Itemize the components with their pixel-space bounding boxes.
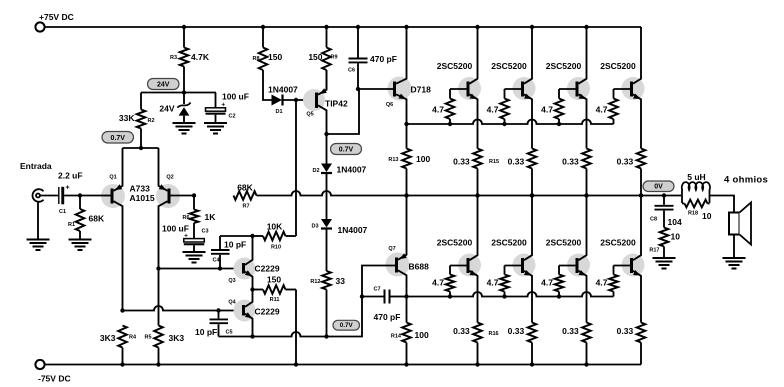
svg-text:Entrada: Entrada <box>20 161 52 171</box>
svg-text:R18: R18 <box>688 211 698 217</box>
svg-text:Q2: Q2 <box>166 175 173 181</box>
node base bus junction #2 <box>502 122 506 126</box>
svg-text:2SC5200: 2SC5200 <box>437 238 473 248</box>
svg-text:R4: R4 <box>129 335 137 341</box>
resistor R3 4.7K <box>183 27 185 48</box>
resistor R6 1K <box>193 196 195 210</box>
node emitter junction <box>139 146 143 150</box>
resistor emitter 0.33 bottom #4 <box>637 323 646 343</box>
svg-text:2SC5200: 2SC5200 <box>600 61 636 71</box>
node C8 junction <box>662 193 666 197</box>
transistor B4 2SC5200 bottom <box>622 254 645 277</box>
svg-text:24V: 24V <box>159 104 174 114</box>
svg-text:24V: 24V <box>157 82 170 89</box>
svg-text:2SC5200: 2SC5200 <box>491 238 527 248</box>
svg-text:4.7: 4.7 <box>432 105 444 115</box>
wire +75V top rail <box>45 26 641 28</box>
resistor R10 10K <box>253 235 264 237</box>
svg-text:4.7K: 4.7K <box>191 52 210 62</box>
ground R1 <box>69 240 92 251</box>
node collector bus junction #3 <box>584 193 588 197</box>
svg-text:R1: R1 <box>68 222 75 228</box>
svg-text:R7: R7 <box>242 204 249 210</box>
svg-text:2SC5200: 2SC5200 <box>546 238 582 248</box>
wire Q4 base bus <box>123 306 243 311</box>
transistor B1 2SC5200 bottom <box>458 254 481 277</box>
svg-text:150: 150 <box>268 52 282 62</box>
resistor R14 100 <box>406 297 408 323</box>
node R11 junction <box>250 287 254 291</box>
svg-text:R17: R17 <box>649 248 659 254</box>
node Q2 collector junction <box>156 266 160 270</box>
transistor Q6 D718 <box>388 77 412 101</box>
diode D3 1N4007 <box>321 219 332 228</box>
node output bus junction #2 <box>530 193 534 197</box>
transistor B2 2SC5200 bottom <box>513 254 536 277</box>
wire jack ground <box>37 202 39 239</box>
node C7 left junction <box>360 294 364 298</box>
transistor T2 2SC5200 top <box>513 77 536 100</box>
svg-text:470 pF: 470 pF <box>370 54 397 64</box>
svg-text:0.33: 0.33 <box>562 157 579 167</box>
svg-text:C6: C6 <box>348 68 355 74</box>
svg-text:C8: C8 <box>650 217 657 223</box>
svg-text:100 uF: 100 uF <box>162 224 189 234</box>
svg-text:0.33: 0.33 <box>562 326 579 336</box>
svg-text:1N4007: 1N4007 <box>337 165 367 175</box>
capacitor C4 10 pF <box>220 235 253 237</box>
input jack J1 <box>33 189 44 202</box>
transistor T3 2SC5200 top <box>567 77 590 100</box>
-75V terminal <box>35 360 44 369</box>
svg-text:33: 33 <box>336 276 346 286</box>
svg-text:R11: R11 <box>270 297 280 303</box>
inductor L1 5 uH <box>681 190 683 204</box>
svg-text:10: 10 <box>702 211 712 221</box>
wire Q4 emitter bus <box>219 297 363 337</box>
svg-text:R3: R3 <box>170 55 177 61</box>
resistor emitter 0.33 bottom #2 <box>528 323 537 343</box>
transistor T1 2SC5200 top <box>458 77 481 100</box>
svg-text:68K: 68K <box>89 214 105 224</box>
svg-text:4 ohmios: 4 ohmios <box>724 175 768 186</box>
svg-text:Q4: Q4 <box>228 300 236 306</box>
node Q7 emitter bus junction <box>404 193 408 197</box>
transistor Q2 A733/A1015 <box>156 184 180 208</box>
svg-text:R12: R12 <box>310 279 320 285</box>
svg-text:104: 104 <box>668 217 682 227</box>
wire R10 to feedback riser <box>295 235 297 237</box>
node 24V junction <box>182 90 186 94</box>
node 0V label <box>643 181 674 192</box>
node R14 rail junction <box>404 362 408 366</box>
resistor base 4.7 bottom #3 <box>558 266 560 275</box>
node lower base bus junction #2 <box>502 294 506 298</box>
diode D2 1N4007 <box>326 134 328 164</box>
svg-text:4.7: 4.7 <box>541 278 553 288</box>
svg-text:Q1: Q1 <box>109 175 116 181</box>
zener diode 24V <box>183 93 185 105</box>
capacitor C5 10 pF <box>218 311 220 319</box>
node R12 bottom junction <box>324 334 328 338</box>
svg-text:-75V DC: -75V DC <box>38 374 71 384</box>
resistor R12 33 <box>326 230 328 272</box>
resistor R13 100 <box>406 124 408 149</box>
capacitor C7 470 pF <box>362 296 384 298</box>
resistor emitter 0.33 top #3 <box>582 149 591 169</box>
svg-text:0.33: 0.33 <box>617 326 634 336</box>
resistor R11 150 <box>253 289 264 291</box>
ground zener <box>173 123 196 134</box>
node R5 rail junction <box>156 362 160 366</box>
node input junction <box>78 193 82 197</box>
resistor base 4.7 top #2 <box>504 89 506 99</box>
ground input jack <box>27 240 50 251</box>
transistor Q1 A733/A1015 <box>101 184 125 208</box>
resistor base 4.7 bottom #2 <box>504 266 506 275</box>
transistor T4 2SC5200 top <box>622 77 645 100</box>
capacitor C3 100 uF <box>184 239 205 242</box>
transistor B3 2SC5200 bottom <box>567 254 590 277</box>
svg-text:1K: 1K <box>205 212 217 222</box>
node collector bus junction #4 <box>639 193 643 197</box>
resistor base 4.7 bottom #4 <box>613 266 615 275</box>
svg-text:2SC5200: 2SC5200 <box>600 238 636 248</box>
resistor base 4.7 top #3 <box>558 89 560 99</box>
wire -75V bottom rail <box>45 364 641 366</box>
node output bus junction #1 <box>475 193 479 197</box>
node Q6 base junction <box>356 87 360 91</box>
svg-text:A1015: A1015 <box>130 193 155 203</box>
ground C2 <box>204 123 227 134</box>
svg-text:2SC5200: 2SC5200 <box>437 61 473 71</box>
node Q1 collector junction <box>120 308 124 312</box>
node output bus junction #3 <box>584 193 588 197</box>
resistor R4 3K3 <box>118 326 127 348</box>
wire feedback riser <box>295 100 297 236</box>
ground speaker <box>723 258 746 269</box>
wire to speaker <box>710 196 735 213</box>
svg-text:0.7V: 0.7V <box>340 322 354 329</box>
node collector bus junction #1 <box>475 193 479 197</box>
svg-text:4.7: 4.7 <box>596 278 608 288</box>
svg-text:100: 100 <box>415 330 429 340</box>
node rail junction low #2 <box>530 362 534 366</box>
svg-text:0.7V: 0.7V <box>339 147 354 154</box>
svg-text:0.33: 0.33 <box>508 326 525 336</box>
node C5 junction <box>216 308 220 312</box>
svg-text:4.7: 4.7 <box>541 105 553 115</box>
resistor R18 10 <box>682 203 685 205</box>
node C4 junction <box>218 266 222 270</box>
svg-text:Q6: Q6 <box>386 102 393 108</box>
svg-text:R2: R2 <box>148 118 155 124</box>
node rail T1 <box>475 25 479 29</box>
node rail R8 <box>261 25 265 29</box>
svg-text:470 pF: 470 pF <box>374 312 401 322</box>
resistor R1 68K <box>79 196 81 210</box>
node 0.7V label <box>102 132 134 144</box>
svg-text:150: 150 <box>267 275 281 285</box>
svg-text:R5: R5 <box>144 335 151 341</box>
svg-text:A733: A733 <box>130 184 151 194</box>
node base bus junction #1 <box>448 122 452 126</box>
svg-text:D2: D2 <box>312 168 319 174</box>
svg-text:3K3: 3K3 <box>169 333 185 343</box>
svg-text:10 pF: 10 pF <box>195 327 217 337</box>
ground C3 <box>183 252 206 263</box>
svg-text:Q3: Q3 <box>228 278 235 284</box>
ground R17 <box>653 258 676 269</box>
wire emitter node <box>123 147 159 149</box>
svg-text:D718: D718 <box>411 85 432 95</box>
transistor Q7 B688 <box>386 253 410 277</box>
node rail C6 <box>356 25 360 29</box>
svg-text:2SC5200: 2SC5200 <box>546 61 582 71</box>
svg-text:C5: C5 <box>226 330 233 336</box>
resistor R7 68K <box>234 191 257 200</box>
svg-text:R10: R10 <box>271 245 281 251</box>
svg-text:68K: 68K <box>237 183 253 193</box>
svg-text:2SC5200: 2SC5200 <box>491 61 527 71</box>
svg-text:+75V DC: +75V DC <box>39 12 74 22</box>
node rail T2 <box>530 25 534 29</box>
capacitor C2 100 uF <box>215 93 217 108</box>
wire D2 to D3 <box>326 174 328 219</box>
node R10 junction <box>250 234 254 238</box>
node rail junction low #1 <box>475 362 479 366</box>
svg-text:C2229: C2229 <box>255 307 280 317</box>
svg-text:+: + <box>221 102 225 109</box>
svg-text:C2: C2 <box>229 114 236 120</box>
node output bus junction #4 <box>639 193 643 197</box>
svg-text:C7: C7 <box>374 287 381 293</box>
node R4 rail junction <box>120 362 124 366</box>
svg-text:0.33: 0.33 <box>453 157 470 167</box>
speaker LS1 <box>729 213 740 235</box>
wire lower base bus <box>407 292 614 296</box>
wire speaker ground <box>733 235 735 259</box>
svg-text:5 uH: 5 uH <box>687 172 705 182</box>
svg-text:100: 100 <box>416 154 430 164</box>
node Q6 emitter junction <box>404 122 408 126</box>
svg-text:0.33: 0.33 <box>508 157 525 167</box>
node R13 bus junction <box>404 193 408 197</box>
wire Q3 base bus <box>159 268 243 270</box>
svg-text:0.7V: 0.7V <box>111 135 126 142</box>
wire output bus <box>257 191 682 195</box>
svg-text:1N4007: 1N4007 <box>268 85 298 95</box>
resistor R2 33K <box>140 93 142 110</box>
wire R11 riser to -rail <box>295 290 297 365</box>
svg-text:Q7: Q7 <box>388 246 395 252</box>
node rail Q6 <box>404 25 408 29</box>
svg-text:4.7: 4.7 <box>487 278 499 288</box>
svg-text:4.7: 4.7 <box>487 105 499 115</box>
diode D1 1N4007 <box>272 95 283 106</box>
node Q4 emitter junction <box>250 334 254 338</box>
capacitor C8 104 <box>663 196 665 205</box>
+75V terminal <box>35 22 44 31</box>
node R6 junction <box>192 193 196 197</box>
resistor emitter 0.33 top #1 <box>473 149 482 169</box>
transistor Q5 TIP42 <box>303 89 325 111</box>
node lower base bus junction #3 <box>557 294 561 298</box>
resistor emitter 0.33 top #2 <box>528 149 537 169</box>
svg-text:4.7: 4.7 <box>596 105 608 115</box>
svg-text:150: 150 <box>308 52 322 62</box>
node rail R3 <box>182 25 186 29</box>
svg-text:C3: C3 <box>202 229 209 235</box>
svg-text:R13: R13 <box>388 157 398 163</box>
svg-text:10K: 10K <box>267 222 283 232</box>
svg-text:C1: C1 <box>59 209 66 215</box>
svg-text:10: 10 <box>671 232 681 242</box>
svg-text:B688: B688 <box>409 262 430 272</box>
capacitor C1 2.2 uF <box>58 187 60 204</box>
node base bus junction #3 <box>557 122 561 126</box>
svg-text:3K3: 3K3 <box>100 333 116 343</box>
node rail T3 <box>584 25 588 29</box>
transistor Q3 C2229 <box>234 258 256 280</box>
node Q5 collector junction <box>324 132 328 136</box>
svg-text:2.2 uF: 2.2 uF <box>58 171 83 181</box>
node lower base bus junction #1 <box>448 294 452 298</box>
svg-text:R6: R6 <box>182 215 189 221</box>
svg-text:C4: C4 <box>213 258 221 264</box>
resistor emitter 0.33 top #4 <box>637 149 646 169</box>
node Q7 collector junction <box>404 294 408 298</box>
svg-text:D3: D3 <box>311 224 318 230</box>
svg-text:1N4007: 1N4007 <box>338 225 368 235</box>
svg-text:C2229: C2229 <box>255 264 280 274</box>
svg-text:Q5: Q5 <box>306 112 313 118</box>
node rail R9 <box>324 25 328 29</box>
svg-text:R8: R8 <box>252 56 259 62</box>
wire 24V node <box>141 92 216 94</box>
transistor Q4 C2229 <box>234 300 256 322</box>
svg-text:100 uF: 100 uF <box>222 91 249 101</box>
resistor R5 3K3 <box>154 326 163 348</box>
svg-text:TIP42: TIP42 <box>325 99 348 109</box>
resistor base 4.7 top #1 <box>449 89 451 99</box>
node R11 rail junction <box>294 362 298 366</box>
wire top base bus <box>407 120 614 125</box>
node 24V label <box>148 79 180 90</box>
resistor base 4.7 top #4 <box>613 89 615 99</box>
svg-text:0.33: 0.33 <box>453 326 470 336</box>
svg-text:R15: R15 <box>489 159 499 165</box>
wire Q5 collector to Q6 base <box>327 89 360 134</box>
resistor R9 150 <box>326 27 328 48</box>
svg-text:+: + <box>65 185 69 192</box>
resistor emitter 0.33 bottom #1 <box>473 323 482 343</box>
svg-text:10 pF: 10 pF <box>224 240 246 250</box>
node 0.7V label mid <box>331 144 362 155</box>
node collector bus junction #2 <box>530 193 534 197</box>
svg-text:4.7: 4.7 <box>432 278 444 288</box>
svg-text:33K: 33K <box>119 113 135 123</box>
svg-text:R9: R9 <box>331 55 338 61</box>
svg-text:0V: 0V <box>654 184 663 191</box>
node 0.7V label low <box>333 320 360 330</box>
svg-text:R16: R16 <box>489 331 499 337</box>
node D1 junction <box>294 98 298 102</box>
resistor R17 10 <box>660 228 669 247</box>
svg-text:R14: R14 <box>391 334 402 340</box>
capacitor C6 470 pF <box>357 27 359 58</box>
resistor R8 150 <box>262 27 264 48</box>
node rail junction low #3 <box>584 362 588 366</box>
resistor emitter 0.33 bottom #3 <box>582 323 591 343</box>
svg-text:D1: D1 <box>275 109 282 115</box>
svg-text:0.33: 0.33 <box>617 157 634 167</box>
resistor base 4.7 bottom #1 <box>449 266 451 275</box>
